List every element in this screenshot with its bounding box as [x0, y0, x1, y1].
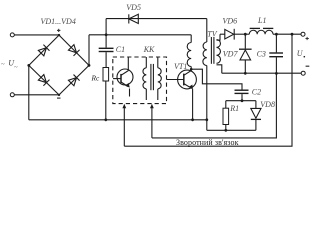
- node bridge left corner: [27, 64, 30, 67]
- diode VD6: [220, 29, 245, 40]
- svg-text:C2: C2: [252, 87, 261, 96]
- wire input top: [14, 34, 59, 36]
- resistor R1: [223, 101, 229, 131]
- feedback arrow 2 into KK: [150, 104, 154, 138]
- wire bridge left corner down to bottom rail: [28, 65, 30, 119]
- node VD6 / VD7 / L1: [244, 33, 247, 36]
- node C2 / bus: [241, 99, 244, 102]
- svg-text:VT1: VT1: [174, 62, 187, 71]
- transistor VT1: [167, 69, 197, 120]
- inductor L1: [245, 28, 276, 34]
- wire bridge edge bottom-right: [59, 65, 89, 95]
- capacitor C3: [269, 34, 283, 73]
- wire input bottom: [14, 94, 59, 96]
- transformer TV core: [211, 37, 214, 64]
- svg-text:Зворотний зв'язок: Зворотний зв'язок: [176, 138, 239, 147]
- svg-text:U: U: [297, 49, 304, 58]
- node L1 / C3: [275, 33, 278, 36]
- svg-text:R1: R1: [229, 104, 239, 113]
- wire feedback outer loop: [124, 34, 292, 146]
- node C3 / minus line / feedback: [275, 72, 278, 75]
- wire snubber from collector node: [191, 69, 242, 89]
- node bottom rail end: [205, 118, 208, 121]
- wire snubber return line: [207, 129, 256, 131]
- KK control block dashed box: [113, 57, 167, 104]
- transformer TV secondary winding: [217, 34, 222, 73]
- transformer TV primary winding: [187, 35, 191, 69]
- diode VD8: [251, 101, 261, 131]
- node bottom rail x Rc: [104, 118, 107, 121]
- svg-text:L1: L1: [257, 16, 266, 25]
- label feedback text: [175, 138, 239, 147]
- svg-text:KK: KK: [143, 45, 155, 54]
- output terminal plus: [301, 32, 305, 36]
- svg-text:VD1...VD4: VD1...VD4: [41, 17, 76, 26]
- node + mark bridge top: [57, 29, 60, 32]
- node bottom rail x VT1 emitter: [191, 118, 194, 121]
- diode VD1 (top-left edge): [38, 45, 49, 56]
- resistor Rc: [103, 68, 109, 120]
- node VD7 / minus line: [244, 72, 247, 75]
- svg-text:VD5: VD5: [126, 3, 141, 12]
- svg-text:TV: TV: [207, 29, 217, 38]
- transformer TV demagnetizing winding: [203, 19, 207, 131]
- wire VD5 branch riser: [105, 19, 107, 35]
- input terminal bottom: [10, 93, 14, 97]
- wire bridge edge bottom-left: [29, 65, 59, 95]
- diode VD3 (bottom-left edge): [38, 75, 49, 86]
- label plus output: [306, 37, 309, 40]
- svg-text:~: ~: [14, 65, 18, 71]
- node bridge right corner: [88, 64, 91, 67]
- wire bridge right corner up to top rail: [88, 35, 90, 66]
- node R1 / return line: [224, 129, 227, 132]
- wire bridge edge top-left: [29, 35, 59, 65]
- transistor Q1 inside KK: [113, 57, 133, 97]
- node bridge top corner: [58, 34, 60, 36]
- diode VD7: [239, 34, 252, 73]
- node - mark bridge bottom: [57, 97, 61, 99]
- label U~ input: [1, 59, 18, 71]
- wire bridge edge top-right: [59, 35, 89, 65]
- svg-text:C1: C1: [116, 45, 125, 54]
- node VT1 collector / primary: [190, 68, 193, 71]
- node rail x C1 column: [105, 33, 108, 36]
- wire top rail: [89, 34, 191, 36]
- capacitor C1: [99, 35, 114, 68]
- diode VD5: [129, 14, 139, 23]
- svg-text:VD8: VD8: [260, 100, 275, 109]
- diode VD4 (bottom-right edge): [68, 75, 79, 86]
- pulse transformer in KK : right winding: [158, 57, 162, 100]
- diode VD2 (top-right edge): [68, 45, 79, 56]
- capacitor C2: [235, 90, 249, 101]
- pulse transformer in KK : left winding: [143, 57, 147, 100]
- svg-text:VD6: VD6: [223, 17, 238, 26]
- svg-text:C3: C3: [257, 49, 266, 58]
- wire bottom rail: [29, 119, 207, 121]
- svg-text:Rc: Rc: [91, 73, 100, 82]
- output terminal minus: [301, 71, 305, 75]
- svg-text:VD7: VD7: [223, 50, 239, 59]
- feedback arrow 1 into KK: [122, 104, 126, 146]
- label U output: [297, 49, 305, 58]
- pulse transformer core: [151, 64, 154, 90]
- wire VD5 line: [106, 18, 207, 20]
- wire feedback inner loop: [152, 73, 277, 137]
- wire snubber bus: [226, 100, 256, 102]
- wire output plus line: [276, 33, 301, 35]
- wire output minus line: [222, 72, 301, 74]
- node bridge bottom corner: [58, 94, 60, 96]
- svg-text:~: ~: [1, 62, 5, 68]
- node feedback tap on plus line: [291, 33, 294, 36]
- input terminal top: [10, 33, 14, 37]
- label minus output: [306, 65, 310, 67]
